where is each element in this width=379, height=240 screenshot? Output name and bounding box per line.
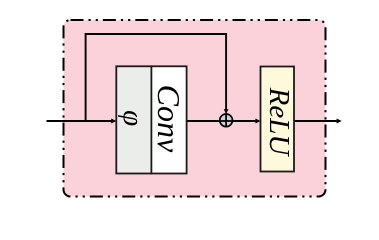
block phi (gray cell)	[116, 66, 151, 173]
wire: output line	[294, 120, 337, 122]
arrowhead output	[337, 119, 342, 124]
residual block container (pink dash-dot box)	[64, 20, 326, 197]
arrowhead into phi block	[111, 119, 116, 124]
arrowhead into ReLU	[255, 119, 260, 124]
arrowhead into adder (down)	[224, 109, 229, 114]
wire: Conv to adder	[187, 120, 222, 122]
wire: skip connection	[86, 34, 227, 121]
adder node (circle-plus)	[220, 114, 233, 127]
block ReLU (cream)	[261, 67, 295, 172]
svg-text:Conv: Conv	[151, 85, 187, 153]
svg-text:φ: φ	[117, 110, 149, 126]
block Conv (white cell)	[151, 66, 186, 173]
svg-text:ReLU: ReLU	[263, 87, 295, 158]
wire: adder to ReLU	[230, 120, 256, 122]
wire: input line	[47, 120, 112, 122]
